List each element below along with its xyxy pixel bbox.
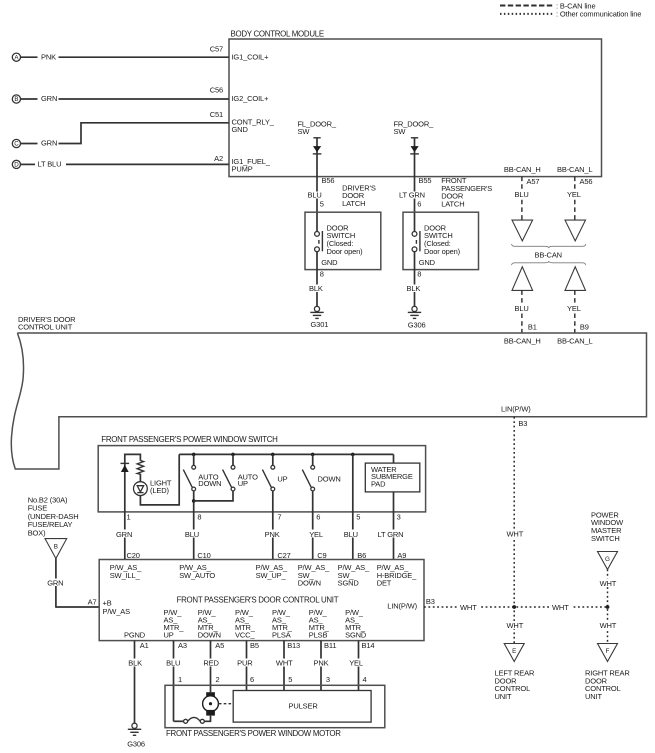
svg-text:PUR: PUR bbox=[237, 659, 253, 668]
svg-text:B9: B9 bbox=[580, 323, 589, 332]
svg-text:4: 4 bbox=[363, 675, 367, 684]
svg-text:7: 7 bbox=[277, 513, 281, 522]
svg-text:WHT: WHT bbox=[552, 603, 569, 612]
svg-text:SW_UP_: SW_UP_ bbox=[256, 571, 287, 580]
svg-text:FRONT PASSENGER'S DOOR CONTROL: FRONT PASSENGER'S DOOR CONTROL UNIT bbox=[177, 596, 339, 605]
svg-text:C9: C9 bbox=[317, 551, 326, 560]
svg-text:3: 3 bbox=[397, 513, 401, 522]
svg-text:BB-CAN_L: BB-CAN_L bbox=[557, 336, 592, 345]
svg-text:VCC_: VCC_ bbox=[235, 630, 255, 639]
svg-text:WHT: WHT bbox=[600, 579, 617, 588]
svg-text:LT GRN: LT GRN bbox=[399, 191, 425, 200]
svg-text:BLU: BLU bbox=[515, 190, 529, 199]
svg-text:LATCH: LATCH bbox=[342, 199, 365, 208]
svg-text:CONTROL UNIT: CONTROL UNIT bbox=[18, 323, 73, 332]
svg-text:SW: SW bbox=[298, 127, 311, 136]
svg-text:GRN: GRN bbox=[116, 530, 132, 539]
svg-text:BLU: BLU bbox=[515, 304, 529, 313]
svg-text:(LED): (LED) bbox=[150, 486, 169, 495]
svg-text:B14: B14 bbox=[362, 641, 375, 650]
svg-text:A1: A1 bbox=[140, 641, 149, 650]
svg-text:SGND: SGND bbox=[338, 579, 360, 588]
svg-text:BODY CONTROL MODULE: BODY CONTROL MODULE bbox=[231, 30, 324, 39]
svg-text:5: 5 bbox=[320, 199, 324, 208]
svg-text:P/W_AS: P/W_AS bbox=[103, 607, 131, 616]
svg-text:LATCH: LATCH bbox=[441, 199, 464, 208]
svg-text:UNIT: UNIT bbox=[585, 692, 602, 701]
svg-text:BLK: BLK bbox=[309, 284, 323, 293]
svg-text:DOWN: DOWN bbox=[318, 474, 341, 483]
svg-text:PLSB: PLSB bbox=[309, 630, 328, 639]
svg-text:GND: GND bbox=[232, 125, 249, 134]
svg-text:8: 8 bbox=[320, 270, 324, 279]
svg-text:C20: C20 bbox=[127, 551, 140, 560]
svg-text:6: 6 bbox=[316, 513, 320, 522]
svg-text:SWITCH: SWITCH bbox=[591, 534, 620, 543]
svg-text:B3: B3 bbox=[426, 597, 435, 606]
svg-text:B: B bbox=[14, 96, 18, 103]
svg-text:PNK: PNK bbox=[41, 52, 56, 61]
svg-text:DOWN: DOWN bbox=[298, 579, 321, 588]
svg-text:BB-CAN_H: BB-CAN_H bbox=[504, 165, 541, 174]
svg-text:B11: B11 bbox=[324, 641, 336, 650]
svg-text:A56: A56 bbox=[580, 177, 593, 186]
svg-text:PAD: PAD bbox=[371, 480, 386, 489]
svg-text:6: 6 bbox=[250, 675, 254, 684]
svg-text:DET: DET bbox=[377, 579, 392, 588]
svg-text:3: 3 bbox=[326, 675, 330, 684]
svg-text:IG1_COIL+: IG1_COIL+ bbox=[232, 53, 270, 62]
svg-text:B6: B6 bbox=[357, 551, 366, 560]
svg-text:B55: B55 bbox=[419, 176, 432, 185]
svg-text:LT BLU: LT BLU bbox=[38, 160, 62, 169]
svg-text:PNK: PNK bbox=[265, 530, 280, 539]
svg-text:YEL: YEL bbox=[567, 190, 581, 199]
svg-text:FRONT PASSENGER'S POWER WINDOW: FRONT PASSENGER'S POWER WINDOW SWITCH bbox=[101, 435, 278, 444]
svg-text:WHT: WHT bbox=[600, 621, 617, 630]
svg-text:UNIT: UNIT bbox=[495, 692, 512, 701]
svg-text:B5: B5 bbox=[250, 641, 259, 650]
svg-text:C10: C10 bbox=[197, 551, 210, 560]
svg-text:B56: B56 bbox=[322, 176, 335, 185]
svg-text:WHT: WHT bbox=[276, 659, 293, 668]
svg-text:G: G bbox=[605, 556, 610, 563]
svg-text:LIN(P/W): LIN(P/W) bbox=[387, 602, 417, 611]
svg-text:YEL: YEL bbox=[309, 530, 323, 539]
svg-text:BLK: BLK bbox=[128, 659, 142, 668]
svg-text:DOWN: DOWN bbox=[198, 479, 221, 488]
svg-text:UP: UP bbox=[238, 479, 248, 488]
svg-text:1: 1 bbox=[127, 513, 131, 522]
svg-text:BB-CAN: BB-CAN bbox=[535, 251, 562, 260]
svg-text:SW: SW bbox=[394, 127, 407, 136]
svg-text:D: D bbox=[14, 162, 19, 169]
svg-text:A57: A57 bbox=[527, 177, 540, 186]
svg-text:WHT: WHT bbox=[460, 603, 477, 612]
svg-text:G306: G306 bbox=[127, 739, 145, 748]
svg-text:UP: UP bbox=[277, 474, 287, 483]
svg-text:GRN: GRN bbox=[47, 578, 63, 587]
svg-text:YEL: YEL bbox=[349, 659, 363, 668]
svg-text:Door open): Door open) bbox=[327, 247, 364, 256]
svg-text:5: 5 bbox=[288, 675, 292, 684]
svg-text:B1: B1 bbox=[528, 323, 537, 332]
svg-text:UP: UP bbox=[164, 630, 174, 639]
svg-text:B: B bbox=[54, 544, 58, 551]
svg-text:PNK: PNK bbox=[314, 659, 329, 668]
svg-text:PUMP: PUMP bbox=[232, 164, 253, 173]
svg-text:A7: A7 bbox=[88, 598, 97, 607]
svg-text:BLK: BLK bbox=[407, 284, 421, 293]
svg-text:A9: A9 bbox=[397, 551, 406, 560]
svg-text:C57: C57 bbox=[210, 44, 223, 53]
svg-text:8: 8 bbox=[197, 513, 201, 522]
svg-text:WHT: WHT bbox=[507, 621, 524, 630]
svg-text:5: 5 bbox=[356, 513, 360, 522]
svg-text:BOX): BOX) bbox=[28, 528, 46, 537]
svg-text:FRONT PASSENGER'S POWER WINDOW: FRONT PASSENGER'S POWER WINDOW MOTOR bbox=[166, 729, 341, 738]
svg-text:C51: C51 bbox=[210, 110, 223, 119]
svg-text:C: C bbox=[14, 141, 19, 148]
svg-text:BLU: BLU bbox=[185, 530, 199, 539]
svg-text:SGND: SGND bbox=[345, 630, 367, 639]
svg-text:1: 1 bbox=[178, 675, 182, 684]
svg-text:B3: B3 bbox=[518, 419, 527, 428]
svg-text:6: 6 bbox=[417, 199, 421, 208]
svg-text:A5: A5 bbox=[215, 641, 224, 650]
svg-text:WHT: WHT bbox=[507, 529, 524, 538]
svg-text:8: 8 bbox=[417, 270, 421, 279]
svg-text:SW_AUTO: SW_AUTO bbox=[179, 571, 215, 580]
svg-text:A2: A2 bbox=[214, 154, 223, 163]
svg-text:: Other communication line: : Other communication line bbox=[556, 10, 641, 19]
svg-text:GRN: GRN bbox=[41, 94, 57, 103]
svg-text:A3: A3 bbox=[178, 641, 187, 650]
svg-text:PULSER: PULSER bbox=[289, 702, 319, 711]
svg-text:PLSA: PLSA bbox=[272, 630, 291, 639]
svg-text:SW_ILL_: SW_ILL_ bbox=[110, 571, 141, 580]
svg-text:IG2_COIL+: IG2_COIL+ bbox=[232, 94, 270, 103]
svg-text:LIN(P/W): LIN(P/W) bbox=[501, 404, 531, 413]
svg-text:E: E bbox=[512, 648, 516, 655]
svg-text:GND: GND bbox=[419, 258, 436, 267]
svg-text:GRN: GRN bbox=[41, 139, 57, 148]
svg-text:BLU: BLU bbox=[344, 530, 358, 539]
svg-text:GND: GND bbox=[321, 258, 338, 267]
svg-text:BLU: BLU bbox=[166, 659, 180, 668]
svg-text:G301: G301 bbox=[311, 320, 329, 329]
svg-text:G306: G306 bbox=[408, 321, 426, 330]
svg-text:C56: C56 bbox=[210, 85, 223, 94]
svg-text:DOWN: DOWN bbox=[198, 630, 221, 639]
svg-text:RED: RED bbox=[203, 659, 219, 668]
svg-text:YEL: YEL bbox=[567, 304, 581, 313]
svg-text:C27: C27 bbox=[277, 551, 290, 560]
svg-text:BLU: BLU bbox=[308, 191, 322, 200]
svg-text:2: 2 bbox=[216, 675, 220, 684]
svg-text:BB-CAN_L: BB-CAN_L bbox=[557, 165, 592, 174]
svg-text:LT GRN: LT GRN bbox=[378, 530, 404, 539]
svg-text:Door open): Door open) bbox=[424, 247, 461, 256]
svg-text:BB-CAN_H: BB-CAN_H bbox=[504, 336, 541, 345]
svg-text:B13: B13 bbox=[287, 641, 300, 650]
svg-text:PGND: PGND bbox=[124, 631, 146, 640]
svg-text:F: F bbox=[606, 648, 610, 655]
